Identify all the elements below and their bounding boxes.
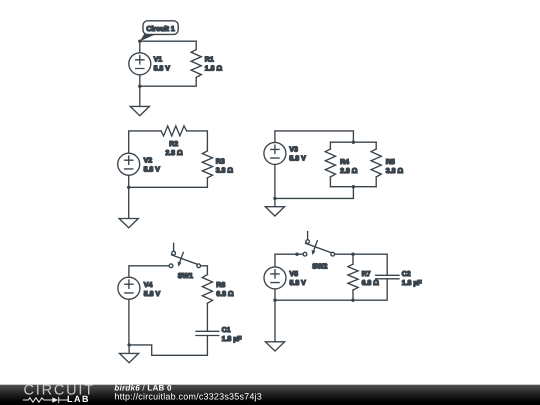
svg-text:5.8 V: 5.8 V: [144, 166, 161, 173]
svg-text:Circuit 1: Circuit 1: [146, 25, 174, 33]
svg-text:5.8 V: 5.8 V: [144, 291, 161, 298]
svg-text:3.8 Ω: 3.8 Ω: [386, 168, 404, 175]
svg-text:R4: R4: [340, 159, 349, 166]
svg-text:1.8 µF: 1.8 µF: [222, 336, 243, 343]
svg-text:V3: V3: [289, 147, 298, 154]
svg-text:R5: R5: [386, 159, 395, 166]
svg-text:R3: R3: [216, 159, 225, 166]
svg-text:SW1: SW1: [178, 273, 193, 280]
svg-text:1.8 Ω: 1.8 Ω: [205, 66, 223, 73]
svg-text:R2: R2: [169, 141, 178, 148]
svg-text:R7: R7: [362, 271, 371, 278]
svg-text:6.8 Ω: 6.8 Ω: [362, 280, 380, 287]
svg-text:2.8 Ω: 2.8 Ω: [340, 168, 358, 175]
svg-text:C1: C1: [222, 327, 231, 334]
svg-text:C2: C2: [402, 271, 411, 278]
svg-text:LAB: LAB: [67, 394, 90, 404]
svg-text:5.8 V: 5.8 V: [154, 66, 171, 73]
svg-text:1.8 µF: 1.8 µF: [402, 280, 423, 287]
svg-text:SW2: SW2: [312, 263, 327, 270]
svg-text:V5: V5: [290, 271, 299, 278]
svg-text:3.8 Ω: 3.8 Ω: [216, 168, 234, 175]
svg-text:http://circuitlab.com/c3323s35: http://circuitlab.com/c3323s35s74j3: [114, 392, 262, 402]
svg-text:6.8 Ω: 6.8 Ω: [216, 291, 234, 298]
svg-text:2.8 Ω: 2.8 Ω: [165, 150, 183, 157]
svg-text:V4: V4: [144, 282, 153, 289]
svg-text:5.8 V: 5.8 V: [290, 280, 307, 287]
svg-text:V2: V2: [144, 157, 153, 164]
svg-text:V1: V1: [154, 57, 163, 64]
svg-text:R6: R6: [216, 282, 225, 289]
svg-text:5.8 V: 5.8 V: [289, 156, 306, 163]
svg-text:R1: R1: [205, 57, 214, 64]
